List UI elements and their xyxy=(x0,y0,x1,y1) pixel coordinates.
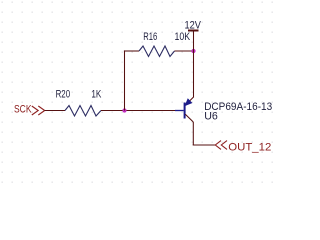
svg-text:OUT_12: OUT_12 xyxy=(228,142,271,154)
wire to R16 left xyxy=(124,50,139,52)
resistor R16 10K xyxy=(139,31,191,56)
collector pin (bottom, diagonal) xyxy=(185,114,193,122)
node A junction xyxy=(122,108,126,112)
wire 12V rail down to emitter xyxy=(193,31,195,98)
emitter pin (top, diagonal) xyxy=(185,97,193,105)
svg-text:SCK: SCK xyxy=(14,104,32,116)
svg-text:10K: 10K xyxy=(175,31,191,43)
junction at 12V rail xyxy=(191,49,195,53)
base pin xyxy=(175,110,184,112)
off-page connector SCK xyxy=(14,104,45,116)
wire R16 right to 12V rail xyxy=(175,50,194,52)
wire to OUT_12 xyxy=(193,144,216,146)
power symbol 12V xyxy=(185,20,202,32)
wire SCK to R20 xyxy=(45,110,65,112)
base bar xyxy=(184,103,186,119)
wire R20 to base / node A xyxy=(101,110,176,112)
resistor R20 1K xyxy=(56,89,102,117)
svg-text:R16: R16 xyxy=(143,31,157,43)
wire node A up to R16 xyxy=(124,50,126,110)
wire collector down xyxy=(192,122,194,145)
svg-text:1K: 1K xyxy=(91,89,101,101)
emitter arrow (PNP, points to bar) xyxy=(185,99,192,106)
svg-text:U6: U6 xyxy=(204,111,218,123)
off-page connector OUT_12 xyxy=(215,141,271,154)
svg-text:R20: R20 xyxy=(56,89,71,101)
transistor Q U6 (PNP) xyxy=(175,97,272,122)
